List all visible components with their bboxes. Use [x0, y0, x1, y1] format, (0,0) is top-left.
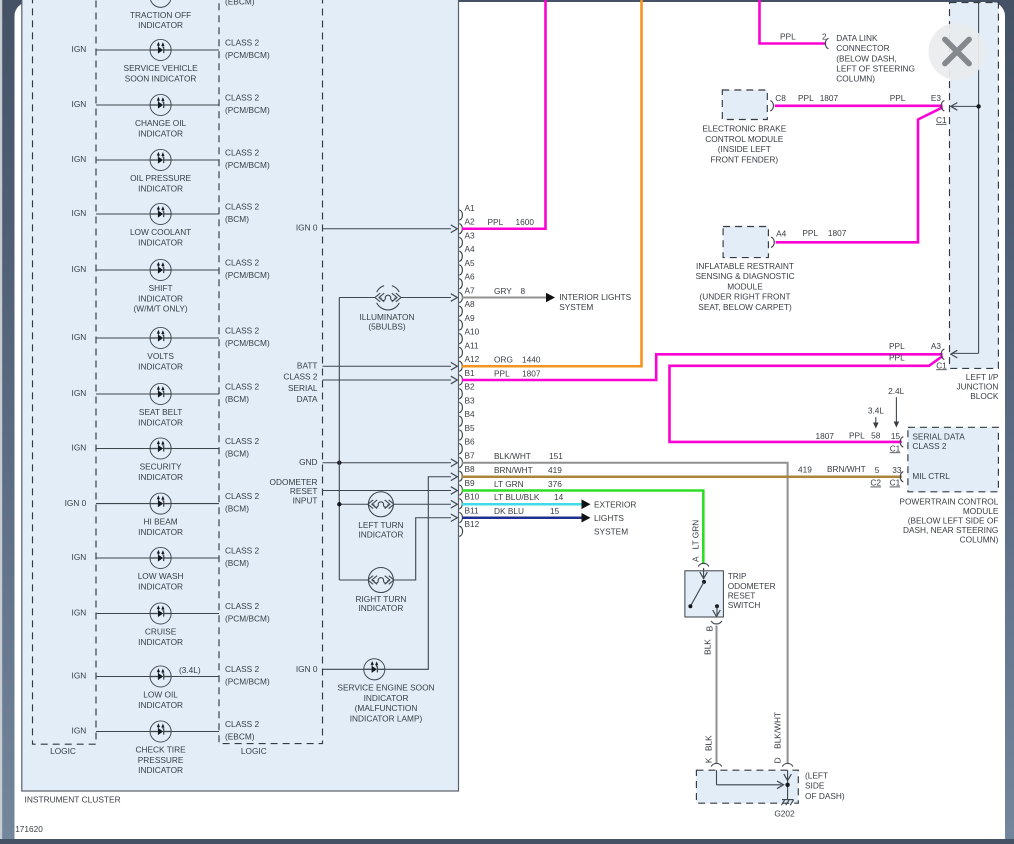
ground symbol G202 [781, 800, 793, 806]
svg-text:419: 419 [798, 465, 812, 475]
svg-text:INDICATOR: INDICATOR [138, 128, 183, 138]
svg-text:PPL: PPL [890, 93, 906, 103]
svg-text:CLASS 2: CLASS 2 [225, 601, 260, 611]
svg-text:PPL: PPL [849, 431, 865, 441]
svg-text:INDICATOR: INDICATOR [358, 529, 403, 539]
svg-text:A3: A3 [465, 230, 476, 240]
svg-text:BLK/WHT: BLK/WHT [772, 712, 782, 749]
pin C8 of EBCM [770, 93, 786, 111]
svg-text:IGN 0: IGN 0 [296, 664, 318, 674]
module LEFT I/P JUNCTION BLOCK (dashed box) [950, 3, 999, 369]
net ODOMETER RESET INPUT to pin B9 [270, 477, 458, 506]
svg-text:(UNDER RIGHT FRONT: (UNDER RIGHT FRONT [699, 292, 790, 302]
svg-text:(EBCM): (EBCM) [225, 731, 255, 741]
svg-text:SOON INDICATOR: SOON INDICATOR [125, 73, 197, 83]
svg-text:BATT: BATT [297, 361, 318, 371]
svg-text:IGN 0: IGN 0 [65, 498, 87, 508]
indicator row 10: HI BEAM INDICATOR [65, 491, 260, 537]
svg-text:A4: A4 [776, 228, 787, 238]
svg-text:A1: A1 [465, 203, 476, 213]
svg-text:(BCM): (BCM) [225, 214, 249, 224]
svg-text:A8: A8 [465, 299, 476, 309]
svg-text:(PCM/BCM): (PCM/BCM) [225, 676, 270, 686]
svg-text:TRIP: TRIP [728, 571, 747, 581]
switch TRIP ODOMETER RESET SWITCH (box) [685, 571, 724, 617]
svg-text:INDICATOR: INDICATOR [138, 417, 183, 427]
svg-text:B6: B6 [465, 437, 476, 447]
connector pin 2 of DLC [780, 31, 829, 48]
svg-text:MODULE: MODULE [727, 281, 763, 291]
svg-text:A: A [691, 556, 701, 562]
svg-text:CONNECTOR: CONNECTOR [836, 43, 889, 53]
labels BLK/WHT D at ground [772, 712, 782, 763]
label ELECTRONIC BRAKE CONTROL MODULE [702, 124, 786, 165]
instrument cluster panel [22, 0, 459, 791]
svg-text:B4: B4 [465, 409, 476, 419]
svg-text:8: 8 [521, 286, 526, 296]
svg-text:CLASS 2: CLASS 2 [283, 372, 318, 382]
svg-text:SWITCH: SWITCH [728, 600, 761, 610]
svg-text:INDICATOR: INDICATOR [138, 765, 183, 775]
module ELECTRONIC BRAKE CONTROL MODULE (dashed box) [722, 90, 767, 120]
junction dot on GND wire [337, 461, 341, 465]
svg-text:MIL CTRL: MIL CTRL [912, 471, 950, 481]
svg-text:IGN: IGN [72, 388, 87, 398]
indicator row 12: CRUISE INDICATOR [72, 601, 270, 647]
lamp ILLUMINATION (5 bulbs) [339, 286, 457, 332]
svg-text:INTERIOR LIGHTS: INTERIOR LIGHTS [559, 292, 631, 302]
svg-text:C1: C1 [890, 443, 901, 453]
indicator row 14: CHECK TIRE PRESSURE INDICATOR [72, 719, 260, 775]
svg-text:BLOCK: BLOCK [970, 391, 999, 401]
svg-text:BRN/WHT: BRN/WHT [827, 464, 866, 474]
svg-text:INDICATOR: INDICATOR [358, 603, 403, 613]
svg-text:(PCM/BCM): (PCM/BCM) [225, 160, 270, 170]
svg-text:IGN: IGN [72, 332, 87, 342]
svg-text:ILLUMINATON: ILLUMINATON [359, 312, 414, 322]
wire ground bus vertical (illumination/turn lamps) [338, 298, 340, 581]
svg-text:E3: E3 [931, 93, 942, 103]
svg-text:K: K [703, 757, 713, 763]
svg-text:IGN: IGN [72, 264, 87, 274]
svg-text:SECURITY: SECURITY [140, 462, 182, 472]
svg-text:INSTRUMENT CLUSTER: INSTRUMENT CLUSTER [25, 794, 121, 804]
svg-text:(BCM): (BCM) [225, 503, 249, 513]
svg-text:PPL: PPL [494, 369, 510, 379]
svg-text:BLK/WHT: BLK/WHT [494, 451, 531, 461]
svg-text:D: D [772, 757, 782, 763]
svg-text:COLUMN): COLUMN) [960, 535, 999, 545]
svg-text:CRUISE: CRUISE [145, 627, 177, 637]
svg-text:LT BLU/BLK: LT BLU/BLK [494, 492, 540, 502]
svg-text:(LEFT: (LEFT [805, 771, 828, 781]
svg-text:LEFT OF STEERING: LEFT OF STEERING [836, 64, 915, 74]
label EXTERIOR LIGHTS SYSTEM [594, 499, 636, 536]
switch internals [688, 568, 720, 617]
junction dot G202 [785, 783, 789, 787]
logic box left (dashed) [33, 0, 97, 744]
svg-text:BLK: BLK [703, 735, 713, 751]
svg-text:INFLATABLE RESTRAINT: INFLATABLE RESTRAINT [696, 261, 794, 271]
pin K of ground box [711, 763, 721, 766]
svg-text:LOGIC: LOGIC [241, 746, 267, 756]
svg-text:B12: B12 [465, 519, 480, 529]
svg-text:CLASS 2: CLASS 2 [225, 491, 260, 501]
svg-text:C1: C1 [936, 360, 947, 370]
ground box internal wires [717, 770, 792, 799]
svg-text:IGN: IGN [72, 726, 87, 736]
svg-text:CLASS 2: CLASS 2 [225, 381, 260, 391]
svg-text:14: 14 [554, 492, 564, 502]
svg-text:BRN/WHT: BRN/WHT [494, 465, 533, 475]
svg-text:LIGHTS: LIGHTS [594, 513, 624, 523]
svg-text:151: 151 [549, 451, 563, 461]
junction dot left-turn/ground bus [337, 502, 341, 506]
svg-text:33: 33 [892, 465, 902, 475]
svg-text:ELECTRONIC BRAKE: ELECTRONIC BRAKE [702, 124, 786, 134]
svg-text:IGN 0: IGN 0 [296, 223, 318, 233]
svg-text:LEFT I/P: LEFT I/P [966, 372, 999, 382]
svg-text:DK BLU: DK BLU [494, 506, 524, 516]
svg-text:CLASS 2: CLASS 2 [225, 719, 260, 729]
svg-text:B2: B2 [465, 382, 476, 392]
wire LT BLU/BLK 14 from B10 to exterior lights [462, 492, 591, 509]
svg-text:CLASS 2: CLASS 2 [225, 325, 260, 335]
svg-text:A11: A11 [465, 340, 480, 350]
svg-text:DATA LINK: DATA LINK [836, 33, 878, 43]
svg-text:INDICATOR: INDICATOR [138, 20, 183, 30]
svg-text:INDICATOR: INDICATOR [138, 472, 183, 482]
svg-text:GND: GND [299, 457, 317, 467]
svg-text:(PCM/BCM): (PCM/BCM) [225, 270, 270, 280]
svg-text:C2: C2 [870, 478, 881, 488]
label DATA LINK CONNECTOR [836, 33, 915, 84]
pin B of switch [702, 621, 721, 655]
svg-text:SIDE: SIDE [805, 781, 825, 791]
pin D of ground box [782, 763, 792, 766]
indicator row 13: LOW OIL INDICATOR [72, 664, 270, 710]
svg-text:CLASS 2: CLASS 2 [225, 664, 260, 674]
svg-text:15: 15 [891, 431, 901, 441]
svg-text:A2: A2 [465, 217, 476, 227]
svg-text:(PCM/BCM): (PCM/BCM) [225, 50, 270, 60]
module POWERTRAIN CONTROL MODULE (dashed box) [908, 427, 999, 492]
svg-text:OIL PRESSURE: OIL PRESSURE [130, 173, 191, 183]
svg-text:PPL: PPL [889, 341, 905, 351]
svg-text:POWERTRAIN CONTROL: POWERTRAIN CONTROL [899, 496, 998, 506]
svg-text:B7: B7 [465, 450, 476, 460]
svg-text:LT GRN: LT GRN [691, 520, 701, 550]
svg-text:376: 376 [548, 479, 562, 489]
pin A4 of SIR module [771, 228, 787, 247]
logic box right (dashed) [219, 0, 323, 744]
label LEFT I/P JUNCTION BLOCK [956, 372, 998, 401]
svg-text:CLASS 2: CLASS 2 [225, 436, 260, 446]
svg-text:(PCM/BCM): (PCM/BCM) [225, 613, 270, 623]
svg-text:EXTERIOR: EXTERIOR [594, 499, 636, 509]
svg-text:IGN: IGN [72, 208, 87, 218]
svg-text:IGN: IGN [72, 154, 87, 164]
svg-text:IGN: IGN [72, 671, 87, 681]
svg-text:SERVICE ENGINE SOON: SERVICE ENGINE SOON [337, 682, 434, 692]
indicator row 4: OIL PRESSURE INDICATOR [72, 147, 270, 193]
wire PPL 1807 from E3/C1 down to SIR A4 [776, 107, 943, 242]
pin 15 C1 serial data [816, 431, 904, 454]
indicator row 6: SHIFT INDICATOR (W/M/T ONLY) [72, 257, 270, 313]
pin A of switch [691, 520, 709, 567]
label PPL / PPL at A3 [889, 341, 905, 362]
svg-text:(BCM): (BCM) [225, 558, 249, 568]
svg-text:GRY: GRY [494, 286, 512, 296]
svg-text:B5: B5 [465, 423, 476, 433]
indicator row 9: SECURITY INDICATOR [72, 436, 260, 482]
svg-text:VOLTS: VOLTS [147, 351, 174, 361]
svg-text:1807: 1807 [820, 93, 839, 103]
indicator row 7: VOLTS INDICATOR [72, 325, 270, 371]
label POWERTRAIN CONTROL MODULE [899, 496, 998, 544]
svg-text:LOW WASH: LOW WASH [138, 571, 184, 581]
svg-text:INDICATOR: INDICATOR [138, 183, 183, 193]
svg-text:COLUMN): COLUMN) [836, 74, 875, 84]
indicator row 2: SERVICE VEHICLE SOON INDICATOR [72, 37, 270, 83]
svg-text:IGN: IGN [72, 443, 87, 453]
svg-text:(PCM/BCM): (PCM/BCM) [225, 338, 270, 348]
pin 33 C1 MIL ctrl [798, 464, 903, 488]
svg-text:CLASS 2: CLASS 2 [225, 37, 260, 47]
svg-text:A6: A6 [465, 272, 476, 282]
module INFLATABLE RESTRAINT SENSING & DIAGNOSTIC (dashed box) [723, 227, 768, 258]
svg-text:1600: 1600 [516, 217, 535, 227]
svg-text:A10: A10 [465, 327, 480, 337]
svg-text:15: 15 [550, 506, 560, 516]
lamp LEFT TURN INDICATOR [339, 492, 457, 540]
svg-text:C8: C8 [775, 93, 786, 103]
svg-text:IGN: IGN [72, 608, 87, 618]
svg-text:OF DASH): OF DASH) [805, 791, 845, 801]
close button [929, 23, 986, 80]
svg-text:CONTROL MODULE: CONTROL MODULE [705, 134, 784, 144]
svg-text:C1: C1 [890, 478, 901, 488]
svg-text:DASH, NEAR STEERING: DASH, NEAR STEERING [903, 525, 998, 535]
page background sliver left edge [0, 0, 2, 839]
svg-text:5: 5 [875, 465, 880, 475]
svg-text:LOW COOLANT: LOW COOLANT [130, 227, 191, 237]
net CLASS 2 SERIAL DATA to pin B1 [283, 372, 457, 404]
indicator row 3: CHANGE OIL INDICATOR [72, 92, 270, 138]
svg-text:(3.4L): (3.4L) [179, 665, 201, 675]
svg-text:LOGIC: LOGIC [50, 746, 76, 756]
svg-text:PPL: PPL [802, 228, 818, 238]
wire internal junction block bus [951, 0, 979, 358]
svg-text:FRONT FENDER): FRONT FENDER) [710, 154, 778, 164]
svg-text:LEFT TURN: LEFT TURN [358, 520, 403, 530]
net BATT to pin A12 [297, 361, 457, 371]
svg-text:B: B [704, 625, 714, 631]
wire DK BLU 15 from B11 to exterior lights [462, 506, 591, 522]
svg-text:A7: A7 [465, 285, 476, 295]
wire PPL 1807 from EBCM C8 to junction block E3 [775, 105, 943, 108]
svg-text:PRESSURE: PRESSURE [138, 755, 184, 765]
indicator row 8: SEAT BELT INDICATOR [72, 381, 260, 427]
wire BLK from switch B to G202 [716, 626, 718, 764]
junction dot E3 branch [976, 104, 980, 108]
svg-text:B10: B10 [465, 492, 480, 502]
svg-text:INPUT: INPUT [293, 495, 318, 505]
svg-text:3.4L: 3.4L [868, 406, 885, 416]
wire PPL 2 to data link connector [760, 0, 826, 44]
wire PPL 1807 from B1 to junction block A3 [462, 354, 943, 380]
svg-text:(BCM): (BCM) [225, 394, 249, 404]
svg-text:B9: B9 [465, 478, 476, 488]
svg-text:IGN: IGN [72, 44, 87, 54]
svg-text:(5BULBS): (5BULBS) [368, 322, 406, 332]
wire BLK/WHT 151 from B7 to G202 [462, 463, 788, 764]
svg-text:IGN: IGN [72, 552, 87, 562]
svg-text:ORG: ORG [494, 355, 513, 365]
svg-text:(MALFUNCTION: (MALFUNCTION [355, 703, 418, 713]
pin A3 of junction block [931, 341, 947, 370]
svg-text:CHANGE OIL: CHANGE OIL [135, 118, 187, 128]
svg-text:TRACTION OFF: TRACTION OFF [130, 10, 191, 20]
wire LT GRN 376 from B9 to trip odometer reset switch [462, 491, 703, 564]
svg-text:RESET: RESET [728, 590, 756, 600]
svg-text:PPL: PPL [798, 93, 814, 103]
svg-text:(EBCM): (EBCM) [225, 0, 255, 7]
engine variant arrows 3.4L / 2.4L [868, 386, 905, 429]
svg-text:B11: B11 [465, 505, 480, 515]
svg-text:1440: 1440 [522, 355, 541, 365]
connector pin column A1-B12 on instrument cluster [459, 203, 479, 537]
svg-text:INDICATOR: INDICATOR [138, 361, 183, 371]
svg-text:(INSIDE LEFT: (INSIDE LEFT [718, 144, 771, 154]
svg-text:CLASS 2: CLASS 2 [225, 92, 260, 102]
svg-text:A9: A9 [465, 313, 476, 323]
indicator row 1: TRACTION OFF INDICATOR [72, 0, 260, 30]
indicator row 5: LOW COOLANT INDICATOR [72, 201, 260, 247]
svg-text:INDICATOR: INDICATOR [138, 700, 183, 710]
svg-text:CLASS 2: CLASS 2 [912, 441, 947, 451]
svg-text:JUNCTION: JUNCTION [956, 382, 998, 392]
svg-text:1807: 1807 [816, 431, 835, 441]
svg-text:SERVICE VEHICLE: SERVICE VEHICLE [124, 63, 199, 73]
svg-text:419: 419 [548, 465, 562, 475]
wire ORG 1440 from A12 [462, 0, 642, 366]
svg-text:A3: A3 [931, 341, 942, 351]
svg-text:1807: 1807 [522, 369, 541, 379]
svg-text:(BCM): (BCM) [225, 448, 249, 458]
svg-text:SYSTEM: SYSTEM [594, 527, 628, 537]
label SERIAL DATA CLASS 2 [912, 432, 965, 451]
svg-text:IGN: IGN [72, 0, 87, 1]
svg-text:A5: A5 [465, 258, 476, 268]
indicator row 11: LOW WASH INDICATOR [72, 545, 260, 591]
svg-text:LT GRN: LT GRN [494, 479, 524, 489]
svg-text:CLASS 2: CLASS 2 [225, 545, 260, 555]
svg-text:SERIAL: SERIAL [288, 383, 318, 393]
svg-text:LOW OIL: LOW OIL [143, 690, 178, 700]
svg-text:(BELOW DASH,: (BELOW DASH, [836, 53, 896, 63]
svg-text:INDICATOR: INDICATOR [364, 693, 409, 703]
svg-text:MODULE: MODULE [963, 506, 999, 516]
svg-text:SHIFT: SHIFT [149, 283, 173, 293]
svg-text:INDICATOR: INDICATOR [138, 527, 183, 537]
svg-text:INDICATOR: INDICATOR [138, 293, 183, 303]
svg-text:INDICATOR: INDICATOR [138, 637, 183, 647]
svg-text:SEAT, BELOW CARPET): SEAT, BELOW CARPET) [698, 302, 792, 312]
svg-text:B1: B1 [465, 368, 476, 378]
svg-text:A4: A4 [465, 244, 476, 254]
svg-text:B3: B3 [465, 395, 476, 405]
svg-text:(W/M/T ONLY): (W/M/T ONLY) [134, 304, 188, 314]
svg-text:DATA: DATA [297, 394, 318, 404]
net GND to pin B7 [299, 457, 457, 467]
svg-text:INDICATOR LAMP): INDICATOR LAMP) [350, 714, 423, 724]
svg-text:(BELOW LEFT SIDE OF: (BELOW LEFT SIDE OF [908, 516, 999, 526]
svg-text:B8: B8 [465, 464, 476, 474]
svg-text:CLASS 2: CLASS 2 [225, 257, 260, 267]
svg-text:INDICATOR: INDICATOR [138, 581, 183, 591]
svg-text:BLK: BLK [702, 639, 712, 655]
svg-text:PPL: PPL [780, 31, 796, 41]
svg-text:PPL: PPL [889, 352, 905, 362]
svg-text:2: 2 [822, 32, 827, 42]
label INFLATABLE RESTRAINT MODULE [695, 261, 794, 312]
svg-text:CLASS 2: CLASS 2 [225, 201, 260, 211]
ground distribution box (LEFT SIDE OF DASH) [696, 770, 798, 803]
wire PPL 1807 from junction block A3/C1 to PCM serial data [670, 356, 943, 442]
svg-text:HI BEAM: HI BEAM [144, 517, 178, 527]
svg-text:SEAT BELT: SEAT BELT [139, 407, 182, 417]
wire BRN/WHT 419 from B8 to PCM MIL CTRL [462, 475, 902, 478]
svg-text:ODOMETER: ODOMETER [728, 581, 776, 591]
svg-text:G202: G202 [774, 808, 795, 818]
svg-text:1807: 1807 [828, 228, 847, 238]
wire PPL 1600 from A2 [462, 0, 546, 229]
svg-text:SYSTEM: SYSTEM [559, 302, 593, 312]
svg-text:CHECK TIRE: CHECK TIRE [136, 745, 187, 755]
pin E3 of junction block [931, 93, 947, 125]
wire GRY 8 from A7 to interior lights [462, 286, 632, 312]
svg-text:IGN: IGN [72, 99, 87, 109]
lamp RIGHT TURN INDICATOR [339, 514, 457, 613]
label TRIP ODOMETER RESET SWITCH [728, 571, 776, 610]
label (LEFT SIDE OF DASH) [805, 771, 845, 801]
svg-text:SENSING & DIAGNOSTIC: SENSING & DIAGNOSTIC [695, 271, 794, 281]
svg-text:CLASS 2: CLASS 2 [225, 147, 260, 157]
svg-text:(PCM/BCM): (PCM/BCM) [225, 105, 270, 115]
lamp SERVICE ENGINE SOON INDICATOR (MIL) [296, 473, 457, 724]
net IGN 0 to pin A2 [296, 223, 457, 233]
svg-text:171620: 171620 [15, 824, 43, 834]
svg-text:A12: A12 [465, 354, 480, 364]
svg-text:PPL: PPL [488, 217, 504, 227]
svg-text:INDICATOR: INDICATOR [138, 237, 183, 247]
svg-text:C1: C1 [936, 115, 947, 125]
svg-text:2.4L: 2.4L [888, 386, 905, 396]
svg-text:58: 58 [871, 431, 881, 441]
